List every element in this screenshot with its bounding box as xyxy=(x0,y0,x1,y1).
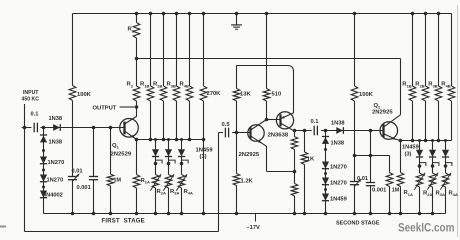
label 1N270 xyxy=(330,164,347,170)
diode 1N459 second b xyxy=(429,141,436,167)
node top rail 100K junction xyxy=(353,12,357,16)
resistor R2A second variable xyxy=(414,166,425,214)
node top rail R2B junction xyxy=(162,12,166,16)
node 1M junction xyxy=(109,126,113,130)
wire first-stage diode bus xyxy=(137,139,204,141)
svg-text:0.5: 0.5 xyxy=(222,122,231,128)
svg-text:1N38: 1N38 xyxy=(331,140,345,146)
svg-text:R3B: R3B xyxy=(167,82,176,89)
diode 1N459 second c xyxy=(442,141,449,167)
node sub-wire junction top xyxy=(369,129,373,133)
transistor Q1 2N2529 xyxy=(120,107,139,140)
node varistor junction b xyxy=(167,162,171,166)
diode 1N459 b xyxy=(165,140,172,164)
node bus diode junction second a xyxy=(418,139,421,142)
resistor collector lower xyxy=(291,172,298,214)
diode D2 1N38 shunt xyxy=(40,135,47,142)
svg-text:R2A: R2A xyxy=(157,189,166,196)
wire middle emitter drop xyxy=(267,146,295,172)
label 1K xyxy=(307,156,315,162)
resistor R2A variable xyxy=(150,164,161,214)
node 13K base junction xyxy=(235,131,239,135)
label 1M second xyxy=(392,188,400,194)
node 2N3638 base junction xyxy=(265,118,269,122)
svg-text:450 KC: 450 KC xyxy=(22,96,40,102)
label R1A second xyxy=(404,190,413,197)
wire 0.5 cap line xyxy=(219,132,251,134)
wire input lead xyxy=(24,104,26,232)
label R2A second xyxy=(423,190,432,197)
node emitter bus junction xyxy=(135,138,139,142)
svg-text:13K: 13K xyxy=(240,91,251,97)
capacitor C 0.1 input xyxy=(31,121,40,134)
svg-text:SECOND STAGE: SECOND STAGE xyxy=(336,220,380,226)
label R1 xyxy=(128,27,135,34)
label R2B xyxy=(153,82,162,89)
wire 0.5 branch riser xyxy=(218,133,220,232)
label 1M xyxy=(114,178,122,184)
svg-text:1K: 1K xyxy=(307,156,315,162)
svg-text:1N270: 1N270 xyxy=(47,177,64,183)
label 1N38 xyxy=(49,139,63,145)
svg-text:R2B: R2B xyxy=(415,82,424,89)
node rail junction R2A xyxy=(154,212,158,216)
transistor U3 2N3638 xyxy=(267,112,294,131)
resistor collector upper xyxy=(291,131,298,172)
resistor 13K xyxy=(233,66,240,133)
svg-text:R3A: R3A xyxy=(436,190,445,197)
node rail junction R2A second xyxy=(418,212,422,216)
svg-text:2N2925: 2N2925 xyxy=(372,109,393,115)
label R3A xyxy=(170,189,179,196)
diode D10 1N459 second xyxy=(322,194,329,201)
wire sub-wire xyxy=(355,155,390,157)
wire diode stack column xyxy=(43,128,45,214)
svg-text:0.1: 0.1 xyxy=(311,119,319,125)
node sub-wire junction xyxy=(369,154,373,158)
capacitor 0.01 trimmer xyxy=(68,174,79,214)
label 1N270 xyxy=(330,180,347,186)
resistor 1M second xyxy=(386,156,393,214)
svg-text:R4A: R4A xyxy=(449,190,458,197)
wire Q2 collector riser xyxy=(400,59,402,115)
resistor 1.2K xyxy=(233,133,240,214)
node top rail 510 junction xyxy=(265,12,269,16)
node diode stack junction xyxy=(42,126,46,130)
svg-text:IN4002: IN4002 xyxy=(45,192,63,198)
label R1B second xyxy=(402,82,411,89)
node stack2 junction c xyxy=(324,188,327,191)
node bus diode junction a xyxy=(154,138,157,141)
wire second stage base line xyxy=(295,130,384,132)
node varistor junction a xyxy=(154,162,158,166)
label Q1 xyxy=(112,143,120,150)
label R2B second xyxy=(415,82,424,89)
label R3B xyxy=(167,82,176,89)
wire jog second a xyxy=(420,163,426,166)
node chain junction xyxy=(293,170,297,174)
label 0.01 second xyxy=(357,176,368,182)
node bus R2B second junction xyxy=(424,139,428,143)
svg-text:2N3638: 2N3638 xyxy=(268,132,289,138)
diode D9 1N270 second xyxy=(322,178,329,185)
label 0.001 xyxy=(77,185,91,191)
capacitor 0.01 trimmer second xyxy=(350,156,361,214)
resistor R2B xyxy=(160,14,167,140)
label 100K xyxy=(77,92,92,98)
node cap-rail junction xyxy=(92,212,96,216)
resistor R1A second xyxy=(397,141,404,214)
wire common return line xyxy=(25,231,219,233)
label 0.1 xyxy=(31,112,39,118)
label Q2 xyxy=(374,103,382,110)
label 0.1 second xyxy=(311,119,319,125)
svg-text:1N38: 1N38 xyxy=(49,116,63,122)
svg-text:100K: 100K xyxy=(77,92,92,98)
label 1N270 xyxy=(47,177,64,183)
svg-text:Q1: Q1 xyxy=(112,143,120,150)
diode D1 1N38 series xyxy=(53,124,60,131)
label 270K xyxy=(207,91,222,97)
svg-text:1N38: 1N38 xyxy=(331,120,345,126)
svg-text:2N2529: 2N2529 xyxy=(111,152,132,158)
svg-text:R4B: R4B xyxy=(441,82,450,89)
node Q2 emitter bus junction xyxy=(399,139,403,143)
node trimmer-rail junction xyxy=(71,212,75,216)
resistor R4A variable xyxy=(176,164,187,214)
node bus R1B second junction xyxy=(411,139,415,143)
svg-text:2N2925: 2N2925 xyxy=(239,152,260,158)
node stack2 junction b xyxy=(324,172,327,175)
label OUTPUT xyxy=(93,106,117,112)
label 13K xyxy=(240,91,251,97)
capacitor 0.5 xyxy=(223,126,232,139)
node bus end junction xyxy=(202,138,206,142)
label IN4002 xyxy=(45,192,63,198)
label R1B xyxy=(140,82,149,89)
label R4B second xyxy=(441,82,450,89)
svg-text:510: 510 xyxy=(272,91,282,97)
svg-text:1N270: 1N270 xyxy=(330,180,347,186)
node top rail 270K junction xyxy=(202,12,206,16)
node input junction xyxy=(23,126,27,130)
wire jog c xyxy=(182,160,189,163)
svg-text:INPUT: INPUT xyxy=(23,90,39,96)
wire -17V bottom rail xyxy=(44,213,446,215)
label 1N459 (3) second xyxy=(402,144,419,157)
label R4A second xyxy=(449,190,458,197)
node stack2 junction xyxy=(324,129,328,133)
svg-text:0.01: 0.01 xyxy=(72,168,83,174)
resistor R1B xyxy=(147,14,154,140)
wire jog a xyxy=(156,160,163,163)
label FIRST STAGE xyxy=(102,218,145,224)
resistor R3A variable xyxy=(163,164,174,214)
node stack junction b xyxy=(42,169,45,172)
node 1K junction xyxy=(303,129,307,133)
node output junction xyxy=(135,105,139,109)
node rail junction R1A second xyxy=(399,212,403,216)
node stack junction a xyxy=(42,149,45,152)
node bus R3B junction xyxy=(175,138,179,142)
label R2 xyxy=(127,82,134,89)
node varistor junction second b xyxy=(431,164,435,168)
diode 1N459 second a xyxy=(416,141,423,167)
node stack junction c xyxy=(42,186,45,189)
svg-text:1N459: 1N459 xyxy=(330,196,347,202)
svg-text:R1B: R1B xyxy=(402,82,411,89)
label R1A xyxy=(141,178,150,185)
svg-text:R2: R2 xyxy=(127,82,134,89)
node varistor junction second c xyxy=(444,164,448,168)
node cap2-rail junction xyxy=(369,212,373,216)
label 2N2925 xyxy=(239,152,260,158)
wire bias loop right side xyxy=(293,71,295,114)
wire second-stage diode bus xyxy=(401,140,452,142)
label 1N38 xyxy=(331,140,345,146)
ground xyxy=(231,14,242,30)
resistor 100K xyxy=(69,86,76,177)
label R3B second xyxy=(428,82,437,89)
resistor R1 xyxy=(133,14,140,59)
label 100K second xyxy=(359,92,374,98)
node rail junction 270K xyxy=(202,212,206,216)
svg-text:1N270: 1N270 xyxy=(330,164,347,170)
node 0.001 junction xyxy=(92,126,96,130)
label 1N459 xyxy=(330,196,347,202)
resistor R4A second variable xyxy=(440,166,451,214)
svg-text:1N459: 1N459 xyxy=(196,147,214,153)
resistor R1A xyxy=(133,140,140,214)
svg-text:R1: R1 xyxy=(128,27,135,34)
label INPUT 450 KC xyxy=(22,90,40,103)
svg-text:1N459: 1N459 xyxy=(402,144,419,150)
wire bias loop top xyxy=(237,66,294,72)
svg-text:0.001: 0.001 xyxy=(77,185,91,191)
node varistor junction second a xyxy=(418,164,422,168)
diode D4 1N270 xyxy=(40,175,47,182)
svg-text:R4B: R4B xyxy=(180,82,189,89)
node top rail R4B junction xyxy=(188,12,192,16)
label 0.01 xyxy=(72,168,83,174)
node 1M-rail junction xyxy=(109,212,113,216)
svg-text:R4A: R4A xyxy=(184,189,193,196)
svg-text:1N270: 1N270 xyxy=(48,160,65,166)
transistor Q2 2N2925 xyxy=(380,115,401,141)
svg-text:FIRST STAGE: FIRST STAGE xyxy=(102,218,145,224)
diode 1N459 a xyxy=(152,140,159,164)
svg-text:(3): (3) xyxy=(405,151,412,157)
wire top supply rail xyxy=(73,13,452,15)
svg-text:1M: 1M xyxy=(114,178,122,184)
svg-text:–17V: –17V xyxy=(247,225,260,231)
label 2N3638 xyxy=(268,132,289,138)
node rail junction R3A xyxy=(167,212,171,216)
capacitor 0.1 second xyxy=(312,124,321,137)
diode D6 1N38 series second xyxy=(336,127,343,134)
svg-text:100K: 100K xyxy=(359,92,374,98)
svg-text:270K: 270K xyxy=(207,91,222,97)
watermark SeekIC.com xyxy=(398,222,454,235)
node top rail R1B junction xyxy=(149,12,153,16)
svg-text:R1A: R1A xyxy=(141,178,150,185)
node second rail junction xyxy=(135,57,139,61)
label 0.5 xyxy=(222,122,231,128)
resistor R1B second xyxy=(409,14,416,141)
svg-text:1.2K: 1.2K xyxy=(241,178,254,184)
node 2N3638 collector junction xyxy=(293,129,297,133)
label 1N459 (3) xyxy=(196,147,214,160)
diode D3 1N270 xyxy=(40,157,47,164)
label 510 xyxy=(272,91,282,97)
label R3A second xyxy=(436,190,445,197)
svg-text:R3B: R3B xyxy=(428,82,437,89)
diode D8 1N270 second xyxy=(322,162,329,169)
wire second rail (R1/R2 node to Q2 collector) xyxy=(137,58,401,60)
capacitor 0.001 xyxy=(89,128,98,214)
svg-text:0.1: 0.1 xyxy=(31,112,39,118)
resistor R3A second variable xyxy=(427,166,438,214)
label R4A xyxy=(184,189,193,196)
svg-text:R2A: R2A xyxy=(423,190,432,197)
node rail junction R1A xyxy=(135,212,139,216)
svg-text:1N38: 1N38 xyxy=(49,139,63,145)
node stack2-rail junction xyxy=(324,212,328,216)
diode D5 IN4002 xyxy=(40,191,47,198)
diode 1N459 c xyxy=(178,140,185,164)
label 1N270 xyxy=(48,160,65,166)
wire jog second c xyxy=(446,163,452,166)
node varistor junction c xyxy=(180,162,184,166)
label 2N2925 Q2 xyxy=(372,109,393,115)
node top rail R1B second junction xyxy=(411,12,415,16)
node rail junction 1M second xyxy=(388,212,392,216)
node sub-wire left junction xyxy=(353,154,357,158)
label 1N38 second xyxy=(331,120,345,126)
resistor 100K second xyxy=(351,14,358,156)
wire jog second b xyxy=(433,163,439,166)
transistor U2 2N2925 xyxy=(248,120,267,147)
resistor R2 xyxy=(133,59,140,108)
node top rail R1 junction xyxy=(135,12,139,16)
resistor R3B xyxy=(173,14,180,140)
diode D7 1N38 shunt second xyxy=(322,137,329,144)
node ground junction xyxy=(235,12,239,16)
svg-text:OUTPUT: OUTPUT xyxy=(93,106,117,112)
resistor R4B xyxy=(186,14,193,140)
resistor 1K xyxy=(301,131,308,214)
node rail junction 1.2K xyxy=(235,212,239,216)
resistor 1M xyxy=(107,128,114,214)
svg-text:0.01: 0.01 xyxy=(357,176,368,182)
label R4B xyxy=(180,82,189,89)
label 0.001 second xyxy=(372,187,386,193)
label 2N2529 xyxy=(111,152,132,158)
node trimmer2-rail junction xyxy=(353,212,357,216)
wire input line xyxy=(22,127,125,129)
node top rail R3B junction xyxy=(175,12,179,16)
svg-text:1M: 1M xyxy=(392,188,400,194)
label 1N38 xyxy=(49,116,63,122)
svg-text:R1A: R1A xyxy=(404,190,413,197)
resistor 270K xyxy=(200,14,207,140)
node rail junction 1K xyxy=(303,212,307,216)
node bus diode junction b xyxy=(167,138,170,141)
svg-text:SeekIC.com: SeekIC.com xyxy=(398,222,454,235)
wire 270K column lower xyxy=(203,140,205,214)
node stack2 junction a xyxy=(324,148,327,151)
svg-text:R1B: R1B xyxy=(140,82,149,89)
node rail junction R3A second xyxy=(431,212,435,216)
label 1.2K xyxy=(241,178,254,184)
node bus R4B junction xyxy=(188,138,192,142)
svg-text:R2B: R2B xyxy=(153,82,162,89)
svg-text:0.001: 0.001 xyxy=(372,187,386,193)
node bus R1B junction xyxy=(149,138,153,142)
node top rail R3B second junction xyxy=(437,12,441,16)
label -17V xyxy=(247,214,260,231)
resistor R4B second xyxy=(448,14,455,141)
label SECOND STAGE xyxy=(336,220,380,226)
svg-text:R3A: R3A xyxy=(170,189,179,196)
node bus R2B junction xyxy=(162,138,166,142)
node bus diode junction second b xyxy=(431,139,434,142)
wire 100K column top xyxy=(72,14,74,86)
node rail junction chain xyxy=(293,212,297,216)
node bus R3B second junction xyxy=(437,139,441,143)
node top rail R2B second junction xyxy=(424,12,428,16)
node rail junction R4A xyxy=(180,212,184,216)
wire diode stack column second xyxy=(325,131,327,214)
resistor 510 xyxy=(263,14,270,120)
resistor R2B second xyxy=(422,14,429,141)
label R2A xyxy=(157,189,166,196)
wire output lead xyxy=(120,106,135,108)
resistor R3B second xyxy=(435,14,442,141)
node bus diode junction c xyxy=(180,138,183,141)
wire jog b xyxy=(169,160,176,163)
node bus diode junction second c xyxy=(444,139,447,142)
capacitor 0.001 second xyxy=(366,131,375,214)
